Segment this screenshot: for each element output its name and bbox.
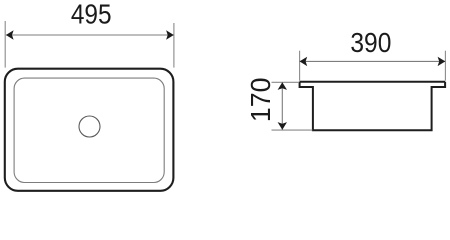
extension line right of 390 — [444, 51, 446, 81]
dimension line 390 — [300, 60, 445, 62]
svg-text:170: 170 — [245, 78, 276, 123]
arrowhead 495 right — [166, 30, 174, 39]
extension line right of 495 — [173, 23, 175, 68]
arrowhead 170 down — [278, 122, 287, 130]
svg-text:390: 390 — [350, 27, 391, 58]
arrowhead 170 up — [278, 82, 287, 90]
arrowhead 390 right — [438, 57, 446, 66]
extension line left of 495 — [4, 21, 6, 68]
dimension line 495 — [6, 34, 174, 36]
basin outer rim outline (top view) — [5, 69, 174, 191]
arrowhead 390 left — [300, 57, 308, 66]
extension line top of 170 — [272, 81, 300, 83]
basin side profile (side view) — [300, 82, 446, 130]
extension line left of 390 — [299, 51, 301, 81]
extension line bottom of 170 — [272, 129, 313, 131]
svg-text:495: 495 — [71, 0, 112, 29]
dimension line 170 — [281, 82, 283, 129]
arrowhead 495 left — [6, 30, 14, 39]
basin inner bowl outline (top view) — [14, 78, 164, 182]
drain hole circle — [79, 116, 100, 137]
